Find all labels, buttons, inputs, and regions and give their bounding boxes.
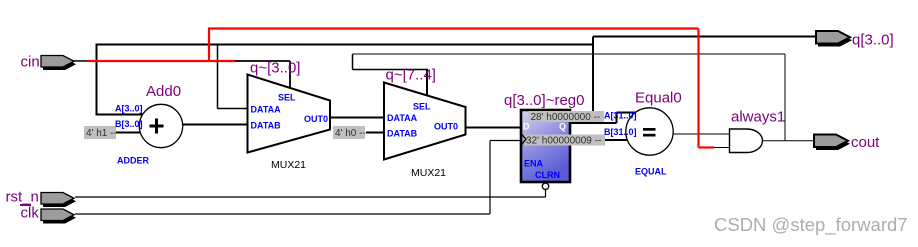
svg-text:cin: cin: [21, 54, 40, 71]
svg-text:Equal0: Equal0: [635, 90, 682, 107]
svg-text:CLRN: CLRN: [535, 170, 560, 180]
wire clk vertical: [489, 141, 491, 215]
wire cin red highlighted horizontal: [88, 60, 235, 62]
svg-text:rst_n: rst_n: [6, 189, 39, 206]
svg-text:q[3..0]~reg0: q[3..0]~reg0: [504, 92, 584, 109]
register clock chevron: [522, 134, 527, 145]
svg-text:A[31..0]: A[31..0]: [604, 111, 637, 121]
adder Add0 circle: [139, 104, 182, 147]
svg-text:DATAA: DATAA: [387, 113, 418, 123]
wire to q[3..0] output pin: [593, 36, 817, 38]
wire AND output to cout pin: [762, 140, 819, 142]
svg-text:EQUAL: EQUAL: [635, 167, 667, 177]
value label 4'h1: [84, 126, 117, 139]
input pin clk: [41, 209, 76, 224]
svg-text:OUT0: OUT0: [434, 122, 458, 132]
mux21 q~[7..4] trapezoid: [384, 83, 466, 160]
input pin cin: [41, 56, 76, 71]
wire rst_n: [75, 196, 546, 198]
svg-text:SEL: SEL: [278, 93, 296, 103]
svg-text:DATAB: DATAB: [387, 129, 418, 139]
value label 4'h0: [333, 126, 366, 139]
svg-text:always1: always1: [731, 109, 785, 126]
wire vertical to cout junction: [784, 54, 786, 141]
svg-text:DATAA: DATAA: [251, 105, 282, 115]
svg-text:D: D: [523, 122, 530, 132]
wire q feedback top horizontal: [97, 44, 594, 46]
wire MUX1 DATAA input: [218, 108, 249, 110]
svg-text:4' h0 --: 4' h0 --: [335, 128, 366, 139]
input pin rst_n: [41, 193, 76, 208]
svg-text:ENA: ENA: [524, 159, 544, 169]
svg-text:ADDER: ADDER: [117, 156, 150, 166]
wire q vertical at register Q: [592, 37, 594, 124]
wire constant 4'h1 to adder B: [115, 132, 141, 134]
wire MUX2 OUT0 to register D: [466, 127, 523, 129]
wire register Q output: [571, 113, 636, 124]
wire cin net long horizontal y53: [353, 53, 786, 55]
svg-text:OUT0: OUT0: [304, 114, 328, 124]
wire adder output to MUX1 DATAB: [182, 124, 248, 126]
wire q branch vertical to MUX1 DATAA: [217, 45, 219, 109]
register CLRN bubble: [542, 183, 548, 189]
wire cin net corner to MUX2 SEL: [353, 54, 428, 70]
svg-text:MUX21: MUX21: [411, 167, 446, 179]
wire cin red right vertical: [697, 29, 699, 148]
register q[3..0]~reg0 box: [521, 110, 570, 182]
wire constant 4'h0 to MUX2 DATAB: [366, 132, 384, 134]
svg-text:q[3..0]: q[3..0]: [852, 32, 894, 49]
svg-text:4' h1 --: 4' h1 --: [86, 128, 117, 139]
svg-text:Add0: Add0: [146, 83, 181, 100]
wire adder A input: [96, 114, 144, 116]
svg-text:clk: clk: [21, 205, 40, 222]
wire clk: [75, 213, 490, 215]
wire cin red top horizontal: [208, 27, 699, 29]
equal symbol bars: [643, 128, 656, 131]
svg-text:CSDN @step_forward7: CSDN @step_forward7: [714, 214, 908, 236]
clk overline mark: [20, 204, 31, 206]
wire clk into register clock: [490, 140, 522, 142]
wire MUX2 SEL vertical: [426, 69, 428, 96]
output pin q[3..0]: [816, 31, 852, 47]
wire MUX1 OUT0 to MUX2 DATAA: [330, 117, 384, 119]
svg-text:DATAB: DATAB: [251, 121, 282, 131]
wire cin to MUX1 SEL: [234, 60, 290, 62]
svg-text:B[31..0]: B[31..0]: [604, 127, 637, 137]
equal0 circle: [626, 108, 673, 155]
wire cin stub from pin: [72, 60, 90, 62]
wire rst_n vertical to CLRN bubble: [545, 190, 547, 198]
wire q feedback left vertical: [96, 44, 98, 115]
svg-text:A[3..0]: A[3..0]: [115, 104, 143, 114]
wire MUX1 SEL vertical: [289, 61, 291, 91]
svg-text:cout: cout: [851, 134, 880, 151]
svg-text:q~[7..4]: q~[7..4]: [386, 67, 436, 84]
svg-text:q~[3..0]: q~[3..0]: [250, 60, 300, 77]
svg-text:Q: Q: [559, 122, 566, 132]
adder plus symbol: [155, 119, 158, 134]
wire cin red vertical riser: [208, 29, 210, 62]
svg-text:B[3..0]: B[3..0]: [115, 119, 143, 129]
svg-text:MUX21: MUX21: [271, 159, 306, 171]
wire Equal0 B input: [605, 139, 628, 141]
mux21 q~[3..0] trapezoid: [248, 75, 331, 153]
value label 32'h00000009: [524, 135, 605, 147]
value label 28'h0000000: [529, 111, 605, 123]
wire cin red into AND gate: [699, 146, 715, 148]
wire Equal0 output to AND gate: [673, 133, 730, 135]
svg-text:SEL: SEL: [413, 102, 431, 112]
AND gate always1: [730, 129, 763, 153]
svg-text:32' h00000009 --: 32' h00000009 --: [526, 136, 601, 147]
output pin cout: [814, 135, 850, 151]
wire AND gate lower input black segment: [714, 147, 730, 149]
